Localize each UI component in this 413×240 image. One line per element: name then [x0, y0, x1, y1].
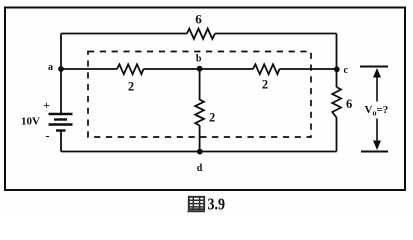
wire: left vertical a down to battery: [60, 69, 62, 114]
node d: [197, 149, 203, 174]
svg-text:10V: 10V: [21, 116, 40, 128]
svg-text:+: +: [43, 98, 50, 112]
svg-text:2: 2: [209, 111, 215, 125]
svg-text:2: 2: [262, 78, 268, 92]
wire: middle horizontal between resistors through node b: [144, 68, 254, 70]
svg-text:3.9: 3.9: [208, 195, 226, 214]
node c: [334, 65, 349, 76]
wire: right vertical to bottom wire: [336, 118, 338, 152]
svg-text:-: -: [46, 129, 50, 143]
svg-text:Vo=?: Vo=?: [365, 104, 389, 118]
resistor 6 (top): [187, 12, 215, 39]
wire: top horizontal left segment: [61, 33, 187, 35]
wire: vertical c down to resistor 6: [336, 69, 338, 87]
caption figure label: [188, 195, 226, 214]
wire: top loop left vertical (a to top-left corner): [60, 34, 62, 70]
svg-text:a: a: [48, 62, 53, 73]
battery 10V: [21, 98, 73, 143]
svg-text:c: c: [344, 65, 349, 76]
node a: [48, 62, 64, 73]
svg-text:b: b: [196, 54, 202, 65]
wire: top horizontal right segment: [215, 33, 337, 35]
wire: right vertical from top corner down to node c: [336, 34, 338, 70]
voltage measurement arrow Vo: [360, 67, 388, 152]
wire: bottom horizontal: [61, 151, 337, 153]
svg-text:6: 6: [346, 97, 352, 111]
wire: middle horizontal to node c: [280, 68, 337, 70]
resistor 2 (b-c): [253, 64, 280, 91]
resistor 2 (b-d vertical): [195, 100, 215, 126]
resistor 2 (a-b): [117, 64, 144, 93]
node b: [196, 54, 203, 72]
wire: battery to bottom wire: [60, 131, 62, 152]
dashed network boundary box: [88, 52, 311, 138]
wire: vertical resistor to node d: [199, 126, 201, 152]
wire: vertical b down to resistor: [199, 69, 201, 100]
resistor 6 (c to bottom): [332, 87, 352, 118]
svg-text:d: d: [197, 163, 203, 174]
svg-text:2: 2: [128, 80, 134, 94]
svg-text:6: 6: [195, 12, 202, 27]
wire: middle horizontal a to first resistor: [61, 68, 117, 70]
